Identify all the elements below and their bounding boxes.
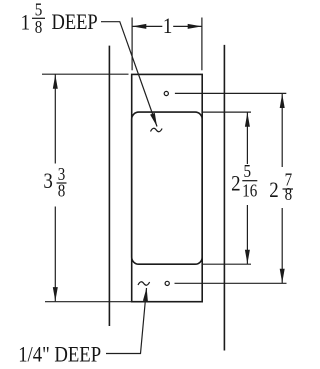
leader from 1/4 DEEP note	[106, 288, 147, 354]
svg-text:2: 2	[269, 179, 278, 203]
dimension line 3 3/8 upper segment	[54, 74, 56, 163]
arrowhead dim 2 7/8 top	[280, 94, 285, 108]
svg-text:8: 8	[35, 17, 43, 37]
extension line top for dim 3 3/8	[42, 73, 129, 75]
tilde mark top (1 5/8 deep surface)	[151, 128, 163, 131]
bottom screw hole	[165, 281, 169, 285]
arrowhead dim 1 left	[132, 24, 146, 29]
svg-text:3: 3	[43, 170, 52, 194]
leader from 1 5/8 DEEP note	[101, 22, 157, 127]
arrowhead dim 2 5/16 top	[245, 113, 250, 127]
svg-text:16: 16	[242, 180, 257, 200]
dimension line 2 7/8 upper segment	[281, 94, 283, 167]
dimension line 2 5/16 lower segment	[246, 205, 248, 264]
arrowhead dim 1 right	[188, 24, 202, 29]
svg-text:8: 8	[285, 184, 293, 204]
svg-text:1: 1	[163, 15, 172, 39]
svg-text:2: 2	[231, 172, 240, 196]
fraction bar 5/8 note	[32, 17, 45, 19]
dimension line 1 left segment	[132, 25, 162, 27]
extension line right of dim 1	[201, 18, 203, 71]
arrowhead dim 3 3/8 top	[53, 75, 58, 89]
arrowhead leader 1 5/8 DEEP	[150, 113, 157, 127]
extension line slot top for dim 2 5/16	[202, 111, 251, 113]
dimension line 1 right segment	[173, 25, 202, 27]
svg-text:1: 1	[21, 11, 30, 35]
top screw hole	[164, 91, 168, 95]
outer plate rectangle	[132, 74, 203, 301]
dimension line 2 5/16 upper segment	[246, 112, 248, 164]
svg-text:DEEP: DEEP	[52, 11, 98, 35]
arrowhead dim 3 3/8 bottom	[53, 287, 58, 301]
arrowhead dim 2 7/8 bottom	[280, 269, 285, 283]
svg-text:1/4" DEEP: 1/4" DEEP	[18, 343, 101, 367]
arrowhead dim 2 5/16 bottom	[245, 250, 250, 264]
extension line left of dim 1	[131, 18, 133, 71]
fraction bar 5/16	[242, 180, 257, 182]
left side edge line	[108, 46, 110, 326]
fraction bar 3/8	[57, 182, 67, 184]
slot rounded-rectangle opening	[132, 112, 203, 264]
dimension line 3 3/8 lower segment	[54, 207, 56, 302]
leader line from top hole	[175, 92, 286, 94]
right side edge line	[223, 45, 225, 351]
extension line bottom for dim 3 3/8	[45, 301, 132, 303]
extension line slot bottom for dim 2 5/16	[202, 263, 251, 265]
fraction bar 7/8	[283, 188, 294, 190]
leader line from bottom hole	[175, 282, 287, 284]
tilde mark bottom (1/4 deep surface)	[138, 282, 150, 285]
dimension line 2 7/8 lower segment	[281, 208, 283, 283]
arrowhead leader 1/4 DEEP	[143, 288, 148, 302]
svg-text:5: 5	[243, 161, 251, 181]
